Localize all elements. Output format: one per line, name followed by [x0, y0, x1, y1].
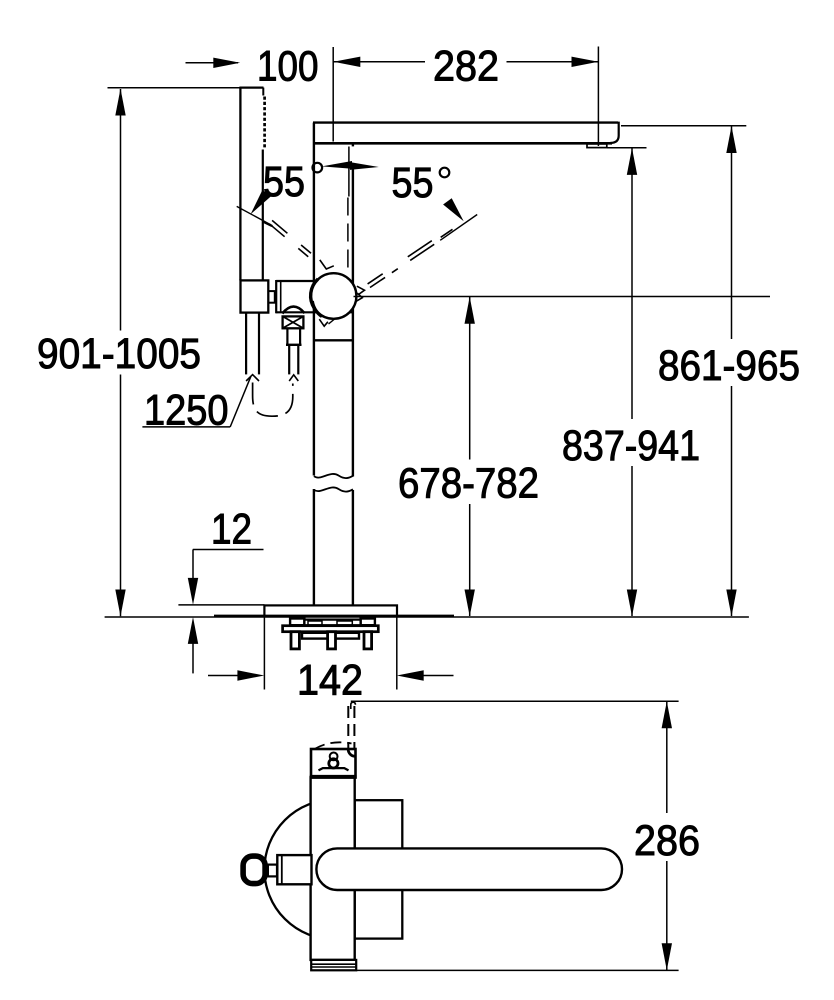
dimension 901-1005: vertical line with arrows: [120, 89, 122, 331]
plan view corner arc: [348, 749, 355, 756]
dimension 12 upper arrow: [192, 550, 194, 581]
plan view lever pill: [316, 848, 622, 890]
plan view right rectangle: [355, 800, 403, 938]
spout top edge: [313, 121, 618, 123]
column break wave upper: [314, 474, 353, 478]
extension line bottom for 286: [357, 969, 679, 971]
extension line top for 286: [351, 700, 679, 702]
valve body inner left line: [280, 282, 282, 312]
extension line plate top left: [178, 604, 264, 606]
small down-left arrow through ball: [339, 298, 355, 316]
leader line 1250 to hand shower: [230, 377, 251, 427]
dimension 100: tail and arrow left: [186, 62, 239, 64]
extension line x=598 right end of 282: [597, 47, 599, 147]
dimension 861-965 vertical line: [731, 126, 733, 339]
outlet pipe: [288, 345, 290, 375]
centerline below spout: [348, 147, 350, 197]
shower holder connector nub: [267, 291, 275, 303]
extension line ball center level for 678-782: [354, 296, 771, 298]
left swivel open arrowhead: [320, 260, 334, 269]
plan view knob stem: [268, 865, 277, 877]
extension line aerator level for 837-941: [607, 147, 647, 149]
mounting left tab: [290, 619, 304, 626]
valve body left edge: [275, 280, 277, 313]
shower holder block: [241, 280, 269, 312]
ball joint: [311, 273, 357, 319]
plan view bottom cap: [311, 960, 356, 970]
plan view column: [311, 777, 355, 960]
left 55 deg tangent line and arrow: [237, 206, 273, 225]
hand shower right top edge: [262, 88, 264, 96]
svg-text:282: 282: [433, 43, 499, 90]
right 55 deg tangent line and arrow: [440, 215, 477, 241]
hand shower handle break chevron: [246, 375, 259, 381]
plan view icon circle: [330, 753, 338, 761]
plan view base circle: [264, 800, 404, 940]
check valve box with X: [283, 316, 304, 328]
column break wave lower: [314, 487, 353, 491]
outlet mid section: [286, 328, 288, 344]
spout dashed lines plan view: [347, 706, 349, 749]
shower hose U dashed: [253, 383, 293, 417]
svg-text:142: 142: [297, 657, 363, 704]
extension line top left for 901-1005: [108, 87, 241, 89]
swivel dashed arc plan view: [315, 742, 352, 749]
plan view valve body: [277, 855, 311, 884]
mounting main bar: [283, 626, 379, 632]
floor line: [105, 616, 749, 618]
mounting legs: [291, 632, 299, 649]
spout aerator: [587, 144, 607, 148]
hand shower right lower edge: [262, 150, 264, 281]
plan view top body: [311, 749, 356, 777]
svg-text:861-965: 861-965: [658, 343, 800, 390]
riser column right edge upper: [352, 143, 354, 146]
hand shower handle: [245, 313, 247, 375]
dimension 142 left arrow: [208, 675, 240, 677]
dimension 282: left arrow: [333, 57, 360, 67]
plan view icon donut: [329, 759, 338, 768]
mounting sub bar: [302, 633, 359, 639]
right 55 deg dashed swivel line: [370, 277, 385, 287]
mounting right tab: [361, 619, 375, 626]
column joint line: [314, 339, 353, 341]
angular bowtie arrows at centerline: [322, 161, 352, 169]
svg-text:12: 12: [211, 507, 252, 554]
riser column left edge upper: [313, 123, 315, 476]
base plate: [264, 605, 397, 616]
dimension 142 right arrow: [397, 670, 424, 680]
extension line spout top level for 861-965: [621, 125, 746, 127]
svg-text:100: 100: [257, 43, 319, 90]
floor line thick segment: [214, 615, 454, 618]
valve body bottom edge: [276, 311, 353, 313]
dimension 837-941 vertical line: [631, 148, 633, 419]
riser column left edge lower: [313, 489, 315, 606]
dimension 286 vertical line: [666, 702, 668, 813]
mounting upper bar: [304, 620, 360, 626]
svg-text:55: 55: [263, 159, 305, 206]
dimension 12 lower arrow: [188, 617, 198, 644]
svg-text:901-1005: 901-1005: [37, 331, 201, 378]
hand shower left edge: [239, 88, 241, 281]
valve body top edge: [276, 280, 353, 282]
dimension 12 shoulder line: [193, 549, 264, 551]
spout tip hook plan view: [351, 702, 356, 709]
check valve dome: [282, 307, 304, 314]
svg-text:837-941: 837-941: [562, 423, 700, 470]
extension line x=333 between 100 and 282: [332, 47, 334, 142]
dimension 678-782 vertical line: [469, 297, 471, 460]
spout bottom edge: [314, 142, 612, 145]
left 55 deg dashed swivel line: [269, 224, 284, 237]
svg-text:55: 55: [392, 160, 434, 207]
svg-text:286: 286: [634, 818, 700, 865]
hand shower top edge: [239, 86, 263, 88]
dimension 142 extension lines: [263, 617, 265, 690]
right swivel open arrowheads: [357, 286, 365, 295]
plan view temperature knob: [243, 856, 265, 884]
svg-text:678-782: 678-782: [398, 460, 539, 507]
hand shower spray face serration: [263, 97, 266, 149]
dimension 282: right arrow: [507, 61, 599, 63]
riser column right edge lower: [352, 490, 354, 606]
outlet pipe break chevron: [289, 375, 298, 381]
plan view icon base line: [319, 768, 349, 770]
spout right end: [611, 122, 619, 143]
